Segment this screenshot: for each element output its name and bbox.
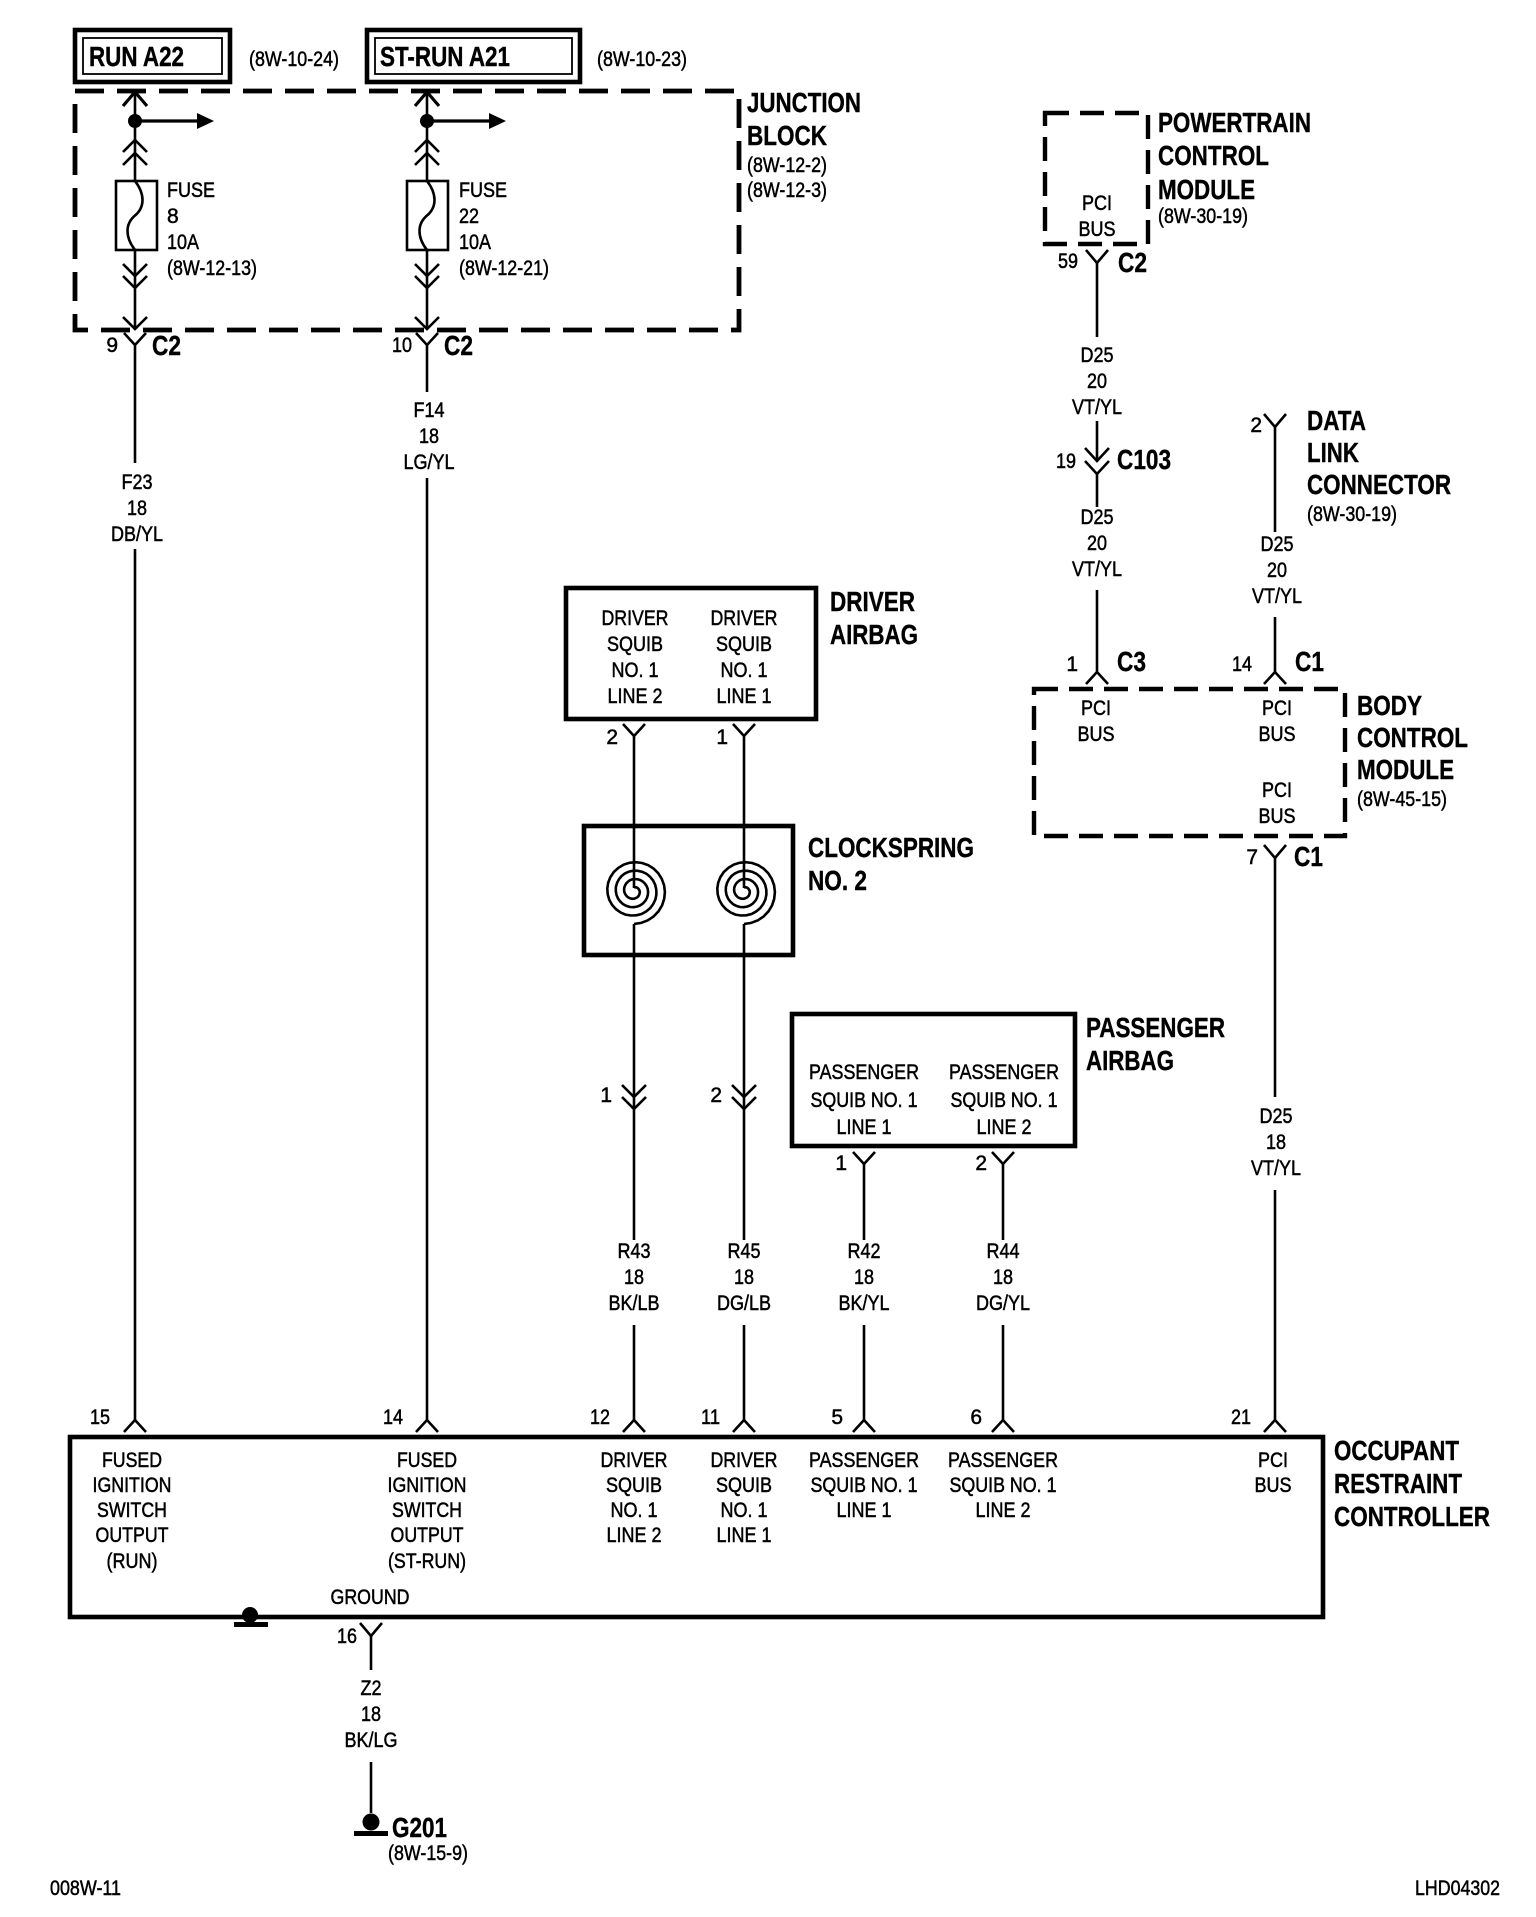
svg-text:VT/YL: VT/YL [1072, 396, 1122, 419]
ORC pin 11 fork [733, 1420, 755, 1432]
wire fuse 8 to connector C2 [134, 250, 137, 329]
ORC pin 21 fork [1264, 1420, 1286, 1432]
branch arrow (RUN feed continues) [135, 113, 214, 129]
svg-text:LHD04302: LHD04302 [1415, 1877, 1500, 1900]
svg-text:PASSENGER: PASSENGER [948, 1449, 1058, 1472]
svg-text:SQUIB: SQUIB [716, 633, 772, 656]
svg-text:18: 18 [624, 1266, 644, 1289]
svg-text:FUSE: FUSE [167, 179, 215, 202]
wire passenger line 1 [863, 1176, 866, 1240]
svg-text:18: 18 [1266, 1131, 1286, 1154]
svg-text:C1: C1 [1294, 841, 1323, 872]
connector C2 pin 59 [1086, 250, 1108, 276]
svg-text:SQUIB NO. 1: SQUIB NO. 1 [811, 1474, 918, 1497]
svg-text:008W-11: 008W-11 [50, 1877, 121, 1900]
svg-text:F14: F14 [414, 399, 445, 422]
wire R43 to ORC pin 12 [633, 1325, 636, 1420]
svg-text:C3: C3 [1117, 646, 1146, 677]
in-line connector C103 [1085, 448, 1109, 474]
svg-text:7: 7 [1246, 846, 1258, 869]
wire driver squib line 2 into clockspring [633, 750, 636, 888]
BCM internal label PCI BUS (right top) [1259, 697, 1296, 746]
junction node dot (RUN) [128, 114, 142, 128]
wire clockspring out (line 1) [743, 924, 746, 1240]
svg-text:VT/YL: VT/YL [1072, 558, 1122, 581]
wire R45 to ORC pin 11 [743, 1325, 746, 1420]
svg-text:CONTROL: CONTROL [1158, 140, 1269, 171]
wire R44 to ORC pin 6 [1002, 1325, 1005, 1420]
svg-text:SQUIB: SQUIB [607, 633, 663, 656]
svg-text:15: 15 [90, 1406, 110, 1429]
connector C2 pin 10 [416, 333, 438, 357]
wire label D25 18 VT/YL [1251, 1105, 1301, 1180]
driver squib line 1 terminal label [711, 607, 778, 708]
svg-text:18: 18 [854, 1266, 874, 1289]
svg-text:10A: 10A [459, 231, 491, 254]
svg-text:POWERTRAIN: POWERTRAIN [1158, 107, 1311, 138]
svg-text:OUTPUT: OUTPUT [96, 1524, 169, 1547]
svg-text:AIRBAG: AIRBAG [1086, 1045, 1174, 1076]
power feed box RUN A22 [75, 30, 230, 82]
svg-text:LINE 2: LINE 2 [976, 1499, 1031, 1522]
svg-text:OUTPUT: OUTPUT [391, 1524, 464, 1547]
wire segment (F14 upper) [426, 357, 429, 392]
svg-text:MODULE: MODULE [1158, 174, 1255, 205]
ORC terminal label driver squib no. 1 line 2 [601, 1449, 668, 1547]
svg-text:NO. 1: NO. 1 [612, 659, 659, 682]
driver airbag pin 2 [623, 724, 645, 750]
passenger airbag pin 1 [853, 1152, 875, 1176]
PCM internal label PCI BUS [1079, 192, 1116, 241]
chevrons up (wire B) [415, 140, 439, 165]
svg-text:2: 2 [975, 1152, 987, 1175]
svg-text:(8W-30-19): (8W-30-19) [1158, 205, 1248, 228]
svg-text:R45: R45 [728, 1240, 761, 1263]
svg-text:JUNCTION: JUNCTION [747, 87, 861, 118]
power feed box ST-RUN A21 [367, 30, 580, 82]
junction block label [747, 87, 861, 202]
svg-text:MODULE: MODULE [1357, 754, 1454, 785]
svg-text:VT/YL: VT/YL [1251, 1157, 1301, 1180]
ORC terminal label driver squib no. 1 line 1 [711, 1449, 778, 1547]
ORC case ground attachment [234, 1607, 268, 1627]
svg-text:1: 1 [1066, 653, 1078, 676]
connector C2 pin 9 [124, 333, 146, 357]
svg-text:LINE 1: LINE 1 [837, 1499, 892, 1522]
fuse 8 value label [167, 179, 257, 280]
svg-text:BK/YL: BK/YL [839, 1292, 890, 1315]
svg-text:PCI: PCI [1258, 1449, 1288, 1472]
svg-text:GROUND: GROUND [331, 1586, 410, 1609]
svg-text:LINK: LINK [1307, 437, 1359, 468]
svg-text:C1: C1 [1295, 646, 1324, 677]
svg-text:8: 8 [167, 205, 179, 228]
svg-text:R43: R43 [618, 1240, 651, 1263]
svg-text:DG/LB: DG/LB [717, 1292, 771, 1315]
chevron at junction block edge (wire B) [415, 317, 439, 329]
branch arrow (ST-RUN feed continues) [427, 113, 506, 129]
svg-text:LINE 2: LINE 2 [608, 685, 663, 708]
svg-text:2: 2 [606, 726, 618, 749]
svg-text:Z2: Z2 [361, 1677, 382, 1700]
wire label F14 18 LG/YL [404, 399, 455, 474]
svg-text:22: 22 [459, 205, 479, 228]
wire F14 to ORC pin 14 [426, 478, 429, 1420]
wire from ST-RUN A21 to fuse 22 [426, 92, 429, 181]
svg-text:14: 14 [383, 1406, 403, 1429]
ORC terminal label passenger squib no. 1 line 1 [809, 1449, 919, 1522]
wire D25 to BCM pin 14 [1274, 617, 1277, 672]
passenger squib line 2 terminal label [949, 1061, 1059, 1139]
svg-text:FUSED: FUSED [397, 1449, 457, 1472]
svg-text:BK/LB: BK/LB [609, 1292, 660, 1315]
svg-text:6: 6 [970, 1406, 982, 1429]
svg-text:BUS: BUS [1259, 723, 1296, 746]
wire label Z2 18 BK/LG [345, 1677, 398, 1752]
passenger squib line 1 terminal label [809, 1061, 919, 1139]
svg-text:NO. 1: NO. 1 [611, 1499, 658, 1522]
svg-text:OCCUPANT: OCCUPANT [1334, 1435, 1459, 1466]
svg-text:CONTROL: CONTROL [1357, 722, 1468, 753]
svg-text:(8W-30-19): (8W-30-19) [1307, 503, 1397, 526]
BCM internal label PCI BUS (right bottom) [1259, 779, 1296, 828]
svg-text:2: 2 [710, 1084, 722, 1107]
svg-text:LG/YL: LG/YL [404, 451, 455, 474]
wire D25 (PCM side, upper) [1096, 276, 1099, 337]
svg-text:59: 59 [1058, 250, 1078, 273]
ORC pin 12 fork [623, 1420, 645, 1432]
svg-text:1: 1 [600, 1084, 612, 1107]
chevrons up (wire A) [123, 140, 147, 165]
svg-text:18: 18 [734, 1266, 754, 1289]
svg-text:SWITCH: SWITCH [97, 1499, 167, 1522]
wire label F23 18 DB/YL [111, 471, 163, 546]
fuse 22 value label [459, 179, 549, 280]
wire Z2 to ground G201 [370, 1762, 373, 1813]
svg-text:BK/LG: BK/LG [345, 1729, 398, 1752]
driver airbag label [830, 586, 918, 650]
svg-text:18: 18 [127, 497, 147, 520]
clockspring label [808, 832, 974, 896]
wire label R42 18 BK/YL [839, 1240, 890, 1315]
svg-text:RUN A22: RUN A22 [89, 41, 184, 72]
svg-text:10A: 10A [167, 231, 199, 254]
wire R42 to ORC pin 5 [863, 1325, 866, 1420]
svg-text:(ST-RUN): (ST-RUN) [388, 1550, 466, 1573]
svg-text:DRIVER: DRIVER [601, 1449, 668, 1472]
data link connector label [1307, 405, 1451, 526]
clockspring pin 2 chevrons [732, 1085, 756, 1109]
svg-text:12: 12 [590, 1406, 610, 1429]
svg-text:(8W-45-15): (8W-45-15) [1357, 788, 1447, 811]
svg-text:2: 2 [1250, 414, 1262, 437]
svg-text:21: 21 [1231, 1406, 1251, 1429]
wire fuse 22 to connector C2 [426, 250, 429, 329]
svg-text:D25: D25 [1081, 344, 1114, 367]
wire D25 (DLC side) [1274, 440, 1277, 532]
svg-text:18: 18 [993, 1266, 1013, 1289]
svg-text:19: 19 [1056, 450, 1076, 473]
ORC pin 15 fork [124, 1420, 146, 1432]
svg-text:10: 10 [392, 334, 412, 357]
svg-text:CLOCKSPRING: CLOCKSPRING [808, 832, 974, 863]
arrow up to RUN A22 [123, 92, 147, 106]
svg-text:(8W-10-23): (8W-10-23) [597, 48, 687, 71]
wire label R44 18 DG/YL [976, 1240, 1030, 1315]
ORC terminal label fused ignition switch output (run) [93, 1449, 172, 1573]
driver airbag module box [566, 588, 816, 719]
svg-text:LINE 1: LINE 1 [717, 685, 772, 708]
svg-text:PCI: PCI [1262, 697, 1292, 720]
wire D25 BCM to ORC (upper) [1274, 874, 1277, 1097]
driver squib line 2 terminal label [602, 607, 669, 708]
svg-text:LINE 2: LINE 2 [977, 1116, 1032, 1139]
svg-text:(8W-12-2): (8W-12-2) [747, 154, 827, 177]
svg-text:1: 1 [716, 726, 728, 749]
svg-text:FUSE: FUSE [459, 179, 507, 202]
clockspring box [584, 826, 793, 955]
ORC pin 14 fork [416, 1420, 438, 1432]
svg-text:AIRBAG: AIRBAG [830, 619, 918, 650]
svg-text:14: 14 [1232, 653, 1252, 676]
svg-text:16: 16 [337, 1625, 357, 1648]
svg-text:(8W-12-21): (8W-12-21) [459, 257, 549, 280]
svg-text:DRIVER: DRIVER [711, 1449, 778, 1472]
svg-text:18: 18 [419, 425, 439, 448]
svg-text:D25: D25 [1081, 506, 1114, 529]
svg-text:CONNECTOR: CONNECTOR [1307, 469, 1451, 500]
body control module label [1357, 690, 1468, 811]
svg-text:DRIVER: DRIVER [830, 586, 915, 617]
svg-text:PCI: PCI [1081, 697, 1111, 720]
svg-text:R44: R44 [987, 1240, 1020, 1263]
wire label D25 20 VT/YL (upper) [1072, 344, 1122, 419]
fuse 8 10A [116, 181, 157, 250]
svg-text:DATA: DATA [1307, 405, 1366, 436]
svg-text:ST-RUN A21: ST-RUN A21 [380, 41, 510, 72]
svg-text:RESTRAINT: RESTRAINT [1334, 1468, 1462, 1499]
powertrain control module (dashed outline) [1045, 113, 1148, 244]
svg-text:(8W-12-13): (8W-12-13) [167, 257, 257, 280]
svg-text:F23: F23 [122, 471, 153, 494]
ORC pin 16 connector [360, 1623, 382, 1670]
svg-text:VT/YL: VT/YL [1252, 585, 1302, 608]
svg-text:BUS: BUS [1079, 218, 1116, 241]
arrow up to ST-RUN A21 [415, 92, 439, 106]
svg-text:LINE 1: LINE 1 [717, 1524, 772, 1547]
svg-text:5: 5 [831, 1406, 843, 1429]
powertrain control module label [1158, 107, 1311, 228]
svg-text:DB/YL: DB/YL [111, 523, 163, 546]
svg-text:20: 20 [1087, 532, 1107, 555]
occupant restraint controller box [70, 1437, 1323, 1617]
svg-text:(8W-10-24): (8W-10-24) [249, 48, 339, 71]
svg-text:R42: R42 [848, 1240, 881, 1263]
wire D25 to BCM pin 1 [1096, 590, 1099, 672]
svg-text:18: 18 [361, 1703, 381, 1726]
passenger airbag pin 2 [992, 1152, 1014, 1176]
occupant restraint controller label [1334, 1435, 1490, 1532]
wire label R43 18 BK/LB [609, 1240, 660, 1315]
passenger airbag module box [792, 1014, 1075, 1146]
driver airbag pin 1 [733, 724, 755, 750]
BCM connector C1 pin 14 fork [1264, 672, 1286, 684]
svg-text:PCI: PCI [1082, 192, 1112, 215]
svg-text:BUS: BUS [1078, 723, 1115, 746]
body control module (dashed outline) [1034, 689, 1345, 836]
wire F23 to ORC pin 15 [134, 549, 137, 1420]
junction node dot (ST-RUN) [420, 114, 434, 128]
ORC terminal label PCI bus [1255, 1449, 1292, 1497]
wire D25 to ORC pin 21 [1274, 1190, 1277, 1420]
ORC terminal label passenger squib no. 1 line 2 [948, 1449, 1058, 1522]
wire passenger line 2 [1002, 1176, 1005, 1240]
svg-text:NO. 1: NO. 1 [721, 659, 768, 682]
BCM internal label PCI BUS (left) [1078, 697, 1115, 746]
svg-text:(8W-12-3): (8W-12-3) [747, 179, 827, 202]
svg-text:PASSENGER: PASSENGER [809, 1449, 919, 1472]
svg-text:G201: G201 [392, 1812, 447, 1843]
svg-text:20: 20 [1267, 559, 1287, 582]
svg-text:LINE 1: LINE 1 [837, 1116, 892, 1139]
svg-text:SQUIB NO. 1: SQUIB NO. 1 [811, 1089, 918, 1112]
wire from RUN A22 to fuse 8 [134, 92, 137, 181]
ORC terminal label fused ignition switch output (st-run) [388, 1449, 467, 1573]
wire label D25 20 VT/YL (DLC) [1252, 533, 1302, 608]
BCM connector C3 pin 1 fork [1086, 672, 1108, 684]
svg-text:PCI: PCI [1262, 779, 1292, 802]
wire driver squib line 1 into clockspring [743, 750, 746, 888]
fuse 22 10A [407, 181, 448, 250]
svg-text:C103: C103 [1117, 444, 1171, 475]
svg-text:C2: C2 [444, 330, 473, 361]
svg-text:BUS: BUS [1259, 805, 1296, 828]
svg-text:SQUIB NO. 1: SQUIB NO. 1 [950, 1474, 1057, 1497]
svg-text:DRIVER: DRIVER [602, 607, 669, 630]
wire below C103 [1096, 474, 1099, 507]
svg-text:IGNITION: IGNITION [388, 1474, 467, 1497]
svg-text:CONTROLLER: CONTROLLER [1334, 1501, 1490, 1532]
junction block (dashed outline) [75, 91, 739, 330]
BCM connector C1 pin 7 [1264, 845, 1286, 874]
wire label D25 20 VT/YL (lower) [1072, 506, 1122, 581]
svg-text:DRIVER: DRIVER [711, 607, 778, 630]
svg-text:PASSENGER: PASSENGER [949, 1061, 1059, 1084]
svg-text:NO. 2: NO. 2 [808, 865, 867, 896]
svg-text:SQUIB NO. 1: SQUIB NO. 1 [951, 1089, 1058, 1112]
svg-text:DG/YL: DG/YL [976, 1292, 1030, 1315]
svg-text:SQUIB: SQUIB [716, 1474, 772, 1497]
svg-text:20: 20 [1087, 370, 1107, 393]
svg-text:BODY: BODY [1357, 690, 1422, 721]
wire clockspring out (line 2) [633, 924, 636, 1240]
svg-text:SWITCH: SWITCH [392, 1499, 462, 1522]
svg-text:(RUN): (RUN) [107, 1550, 158, 1573]
chevrons down (wire B) [415, 264, 439, 288]
ORC pin 6 fork [992, 1420, 1014, 1432]
svg-text:C2: C2 [152, 330, 181, 361]
data link connector pin 2 [1264, 414, 1286, 440]
wire into connector C103 [1096, 421, 1099, 461]
clockspring pin 1 chevrons [622, 1085, 646, 1109]
svg-text:PASSENGER: PASSENGER [1086, 1012, 1225, 1043]
svg-text:IGNITION: IGNITION [93, 1474, 172, 1497]
svg-text:FUSED: FUSED [102, 1449, 162, 1472]
wire label R45 18 DG/LB [717, 1240, 771, 1315]
clockspring coil (right) [717, 862, 775, 924]
svg-text:BUS: BUS [1255, 1474, 1292, 1497]
svg-text:PASSENGER: PASSENGER [809, 1061, 919, 1084]
svg-text:SQUIB: SQUIB [606, 1474, 662, 1497]
chevrons down (wire A) [123, 264, 147, 288]
svg-text:C2: C2 [1118, 247, 1147, 278]
chevron at junction block edge (wire A) [123, 317, 147, 329]
ORC pin 5 fork [853, 1420, 875, 1432]
svg-text:9: 9 [106, 334, 118, 357]
svg-text:LINE 2: LINE 2 [607, 1524, 662, 1547]
svg-text:D25: D25 [1261, 533, 1294, 556]
wire segment (F23 upper) [134, 357, 137, 463]
clockspring coil (left) [607, 862, 665, 924]
svg-text:BLOCK: BLOCK [747, 120, 827, 151]
svg-text:(8W-15-9): (8W-15-9) [388, 1842, 468, 1865]
svg-text:D25: D25 [1260, 1105, 1293, 1128]
passenger airbag label [1086, 1012, 1225, 1076]
ground G201 symbol [354, 1814, 388, 1837]
svg-text:NO. 1: NO. 1 [721, 1499, 768, 1522]
svg-text:11: 11 [701, 1406, 720, 1429]
svg-text:1: 1 [835, 1152, 847, 1175]
